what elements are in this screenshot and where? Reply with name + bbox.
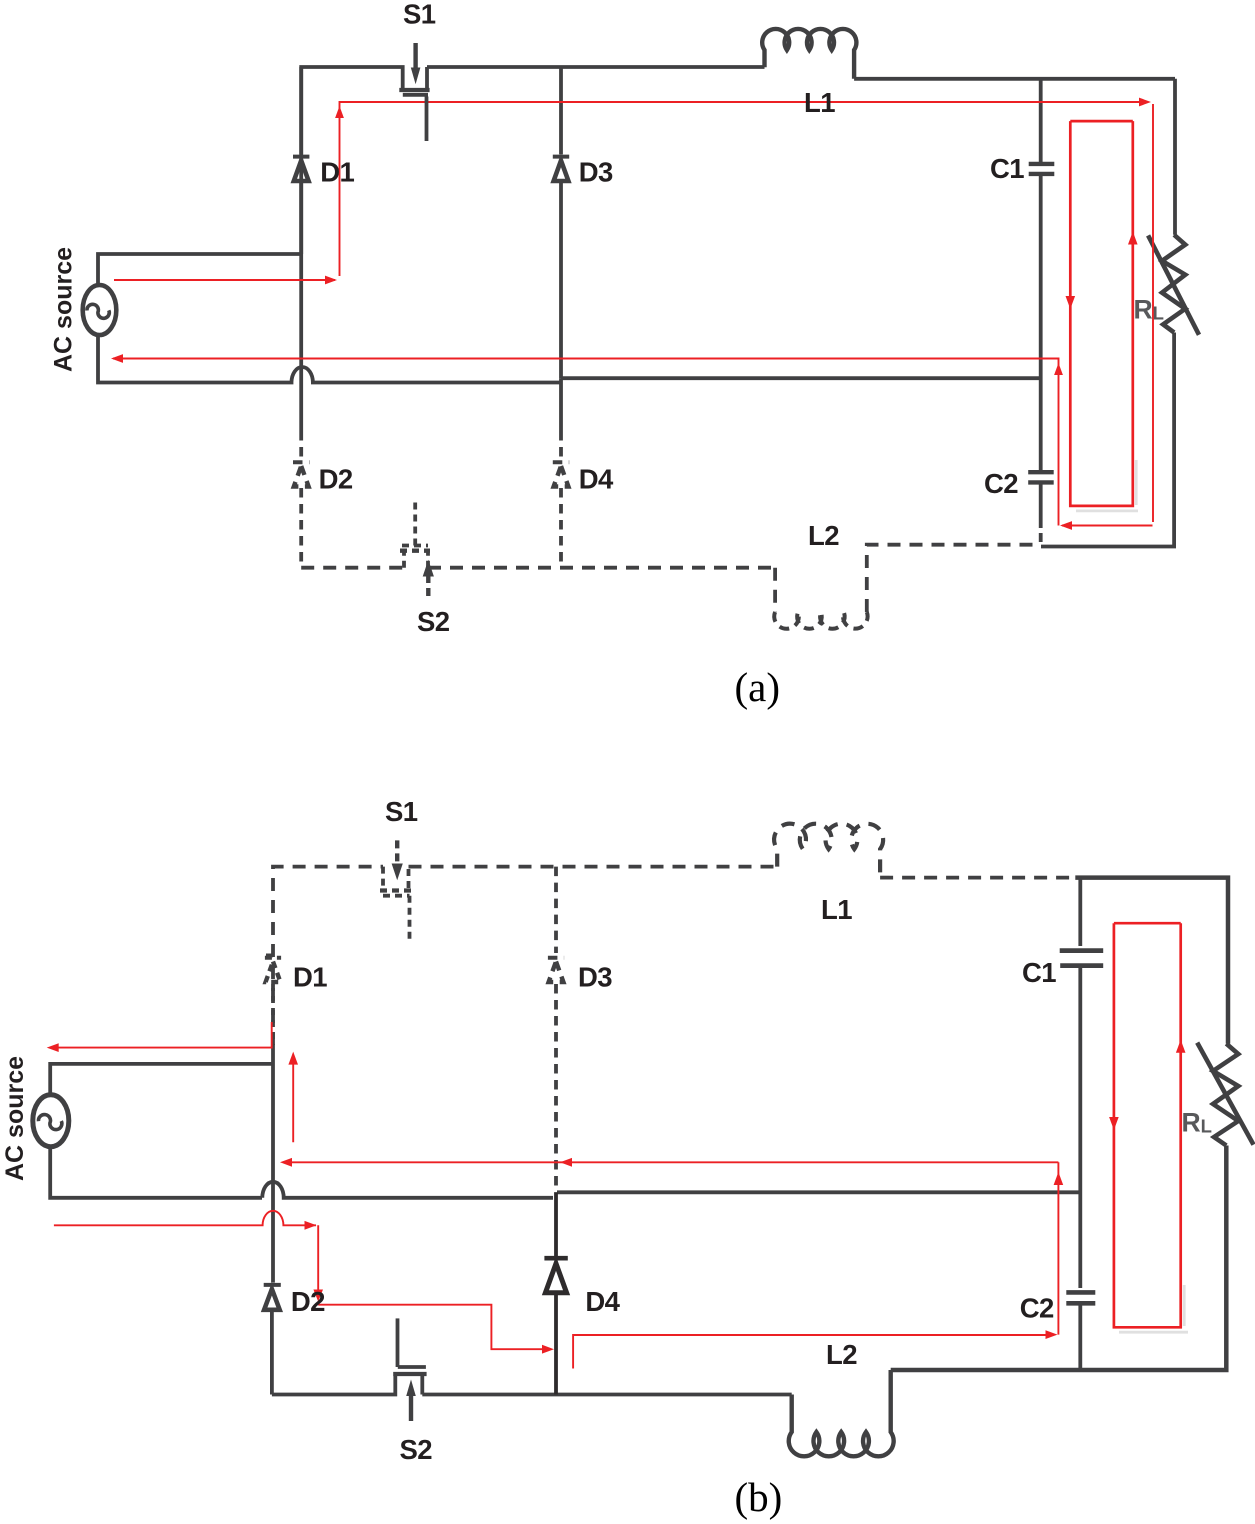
wire: capacitor branch from top bus to C1 [1078, 878, 1082, 946]
wire: dashed below D1 [271, 984, 275, 1045]
svg-text:L2: L2 [826, 1339, 857, 1370]
wire: right side down to load RL [1173, 79, 1177, 235]
AC source sine glyph [38, 1115, 61, 1130]
svg-text:L1: L1 [804, 87, 835, 118]
wire red: up from C2 to mid return line [1057, 1162, 1059, 1334]
S2 (a) pointer arrow shaft [423, 560, 434, 596]
transistor S1 gate lead (over red) [425, 97, 429, 142]
S2 (b) pointer arrow shaft [406, 1380, 416, 1422]
diode D4 branch (dashed, not conducting) [553, 431, 569, 568]
bottom dashed bus with S2 and L2 (inactive path) [301, 545, 1040, 629]
diode D1 bar left nub [263, 954, 273, 958]
capacitor C1 top plate [1029, 162, 1055, 166]
diode D4 triangle [554, 466, 569, 487]
wire: dashed D1 branch top and bus to S1 [273, 867, 383, 1045]
transistor S1 channel bar [399, 88, 429, 92]
wire: AC source bottom lead [50, 1148, 262, 1198]
capacitor C2 bottom plate [1066, 1301, 1095, 1306]
arrowhead up on inner loop right [1128, 232, 1138, 245]
wire red: from D4 along L2 line to C2 [573, 1335, 1054, 1369]
svg-text:D4: D4 [585, 1286, 620, 1317]
wire: D3 branch below diode to mid bus [559, 183, 563, 378]
arrowhead left into source [111, 354, 123, 363]
wire: L1 to top-right corner [854, 77, 1175, 81]
svg-text:(b): (b) [735, 1474, 783, 1520]
switch S1 (dashed, off) [380, 867, 411, 943]
wire: dashed above D2 [299, 431, 303, 458]
S2 (a) pointer arrowhead [423, 560, 434, 577]
capacitor C2 top plate [1066, 1290, 1095, 1295]
diode D3 triangle [549, 962, 564, 983]
svg-text:D3: D3 [579, 156, 613, 187]
transistor S1 channel bar [380, 888, 411, 892]
capacitor C2 top plate [1028, 470, 1054, 474]
diode D4 cathode bar [544, 1256, 567, 1261]
svg-text:AC source: AC source [50, 247, 78, 372]
wire: D3 branch above diode [559, 67, 563, 154]
wire: below D2 to bottom bus corner [270, 1312, 274, 1395]
svg-text:D1: D1 [320, 156, 354, 187]
arrowhead up to mid bus [1054, 363, 1063, 375]
wire: solid top-right bus and right side down to RL [1075, 878, 1228, 1044]
arrowhead left on mid return line at D3 branch [560, 1158, 572, 1167]
arrowhead left on mid return line at D1 branch [280, 1158, 292, 1167]
diode D3 cathode bar [548, 956, 564, 960]
figure (b) red current path [52, 923, 1181, 1368]
arrowhead down on inner loop left [1066, 296, 1076, 309]
transistor S2 channel bar [393, 1372, 426, 1376]
diode D2 cathode bar [293, 460, 309, 464]
transistor S2 gate bar [398, 1365, 426, 1369]
wire red: D1 node stub left to AC source [52, 1022, 272, 1048]
wire: bottom bus S2 past D4 to L2 [422, 1393, 791, 1397]
transistor S2 channel bar [400, 549, 430, 553]
capacitor C2 bottom plate [1028, 480, 1054, 484]
arrowhead up beside D1 branch [288, 1052, 298, 1065]
wire red: up to mid level and return to source [113, 359, 1059, 526]
diode D2 triangle [294, 466, 309, 487]
wire: mid bus right segment to capacitor branch [557, 1190, 1080, 1194]
transistor S2 gate lead [413, 499, 417, 546]
resistor RL zigzag (variable load) [1162, 235, 1185, 333]
diode D3 triangle [554, 161, 569, 182]
arrowhead right on source bottom lead [305, 1221, 317, 1230]
S2 (b) pointer arrowhead [406, 1380, 416, 1397]
wire: mid bus right segment to capacitor branch [561, 376, 1041, 380]
capacitor C1 top plate [1060, 948, 1104, 953]
wire red: inner C1-C2-load loop [1070, 121, 1133, 506]
svg-text:D2: D2 [319, 464, 353, 495]
arrowhead right at D1 node [325, 276, 337, 285]
inductor L2 (dashed) [774, 612, 867, 629]
capacitor C1 bottom plate [1060, 963, 1103, 968]
wire: D4 branch below diode to bottom bus [554, 1295, 558, 1395]
wire: dashed bottom bus D2 to S2 [301, 566, 404, 570]
svg-text:C1: C1 [1022, 957, 1056, 988]
arrowhead up toward mid return line [1054, 1172, 1064, 1185]
wire red: inner C1-C2-load loop [1114, 923, 1181, 1327]
svg-text:L1: L1 [821, 894, 852, 925]
wire: D1 branch below diode through bump to D2 [299, 183, 303, 431]
svg-text:AC source: AC source [1, 1056, 29, 1181]
diode D2 branch (dashed, not conducting) [293, 431, 309, 568]
arrowhead down on inner loop left [1109, 1117, 1119, 1130]
transistor S1 right lead [407, 867, 411, 888]
svg-text:C2: C2 [984, 468, 1018, 499]
AC source sine glyph [87, 304, 109, 318]
diode D4 triangle [545, 1264, 566, 1293]
diode D1 triangle [266, 962, 281, 983]
wire: C2 tail down [1039, 484, 1043, 528]
wire: C2 tail dashed end to bottom corner [1039, 533, 1043, 547]
wire: D4 branch above diode [554, 1192, 558, 1256]
wire: dashed bottom bus S2 past D4 to L2 [428, 566, 775, 570]
svg-text:(a): (a) [735, 664, 781, 710]
wire: below RL to bottom-right corner [1041, 333, 1174, 547]
svg-text:D4: D4 [579, 464, 614, 495]
transistor S2 gate lead [396, 1318, 400, 1367]
transistor S2 right lead [426, 551, 430, 568]
diode D2 cathode bar [264, 1283, 281, 1287]
wire red: mid return line toward source [284, 1161, 1058, 1163]
arrowhead right at top bus end [1139, 98, 1151, 107]
arrowhead right into D4 node [542, 1345, 554, 1354]
transistor S1 gate bar [383, 894, 410, 898]
wire red: upward annotation arrow next to D1 branch [292, 1056, 294, 1142]
inductor L1 [762, 29, 856, 79]
AC source circle [33, 1095, 69, 1147]
arrowhead left into source top [47, 1043, 59, 1052]
svg-text:S2: S2 [400, 1434, 433, 1465]
resistor RL zigzag (variable load) [1213, 1044, 1238, 1146]
wire: dashed below D3 to mid bus [554, 984, 558, 1192]
wire red: source bottom lead with bump, down to D2 [54, 1211, 318, 1298]
svg-text:S1: S1 [385, 796, 418, 827]
transistor S2 left lead [402, 551, 406, 568]
wire: dashed below D4 to bottom bus [559, 488, 563, 568]
wire red: from D2 right and down into D4 node [318, 1305, 550, 1350]
transistor S1 gate bar [403, 93, 428, 97]
wire: D4 branch solid stub below mid bus [559, 378, 563, 431]
wire: dashed bus S1 past D3 to L1 [409, 865, 778, 869]
wire: D1 branch above diode [299, 67, 303, 154]
transistor S1 gate lead [408, 896, 412, 943]
inductor L2 [789, 1370, 894, 1456]
diode D1 cathode bar [293, 155, 309, 159]
wire: dashed above D4 [559, 431, 563, 458]
wire: L2 up and right to C2 tail [867, 545, 1040, 612]
wire: AC source bottom lead with jump-over bump at D1/D2 branch [98, 335, 561, 383]
wire: C2 to bottom bus [1078, 1306, 1082, 1371]
svg-text:D3: D3 [578, 961, 612, 992]
wire: bottom lead jump-over bump at D1/D2 branch [262, 1182, 553, 1198]
wire: C1 to mid-bus junction to C2 [1078, 968, 1082, 1288]
diode D1 cathode bar [265, 956, 281, 960]
transistor S1 source lead up to top bus [425, 67, 429, 88]
svg-text:D1: D1 [293, 961, 327, 992]
capacitor C1 bottom plate [1029, 172, 1055, 176]
svg-text:C2: C2 [1020, 1293, 1054, 1324]
arrowhead down into D2 [313, 1290, 323, 1302]
svg-text:S2: S2 [417, 606, 450, 637]
shadow under red loop (b) [1119, 1285, 1188, 1332]
wire top bus left: D1 cathode node to S1 drain [301, 67, 403, 254]
wire: dashed above D3 [554, 867, 558, 953]
arrowhead up through D1 [335, 106, 344, 118]
arrowhead left on bottom segment [1060, 521, 1072, 530]
diode D4 cathode bar [553, 460, 569, 464]
diode D1 (dashed, not conducting) [263, 955, 281, 1045]
S1 (b) pointer arrowhead [392, 864, 403, 881]
wire: dashed L1 to top-right solid wire [880, 876, 1075, 880]
wire: C1 to mid-bus junction to C2 [1039, 176, 1043, 470]
svg-text:S1: S1 [403, 0, 436, 30]
transistor S1 left lead [381, 867, 385, 888]
resistor RL variable-arrow diagonal [1148, 235, 1199, 334]
wire: dashed below D2 to bottom bus [299, 488, 303, 568]
svg-text:D2: D2 [291, 1286, 325, 1317]
wire: capacitor branch from top bus down to C1 [1039, 79, 1043, 162]
AC source circle [83, 285, 117, 335]
shadow under red loop (a) [1076, 460, 1138, 511]
wire: right side below RL to bottom bus [891, 1146, 1227, 1371]
arrowhead up on inner loop right [1176, 1040, 1186, 1053]
svg-text:L2: L2 [808, 520, 839, 551]
switch S2 (dashed, off) [400, 499, 430, 568]
diode D1 triangle [294, 161, 309, 182]
wire: jog down into L2 [773, 568, 777, 612]
wire red: AC source to D1 node [114, 279, 335, 281]
top dashed bus (inactive path) [273, 824, 1075, 1045]
diode D2 triangle [264, 1289, 280, 1310]
wire: D1/D2 vertical solid part [271, 1045, 275, 1283]
transistor S2 gate bar [402, 544, 428, 548]
svg-text:C1: C1 [990, 153, 1024, 184]
wire red: down right side and along bottom [1062, 104, 1153, 526]
S1 (a) pointer arrowhead [411, 68, 421, 85]
S1 (a) pointer arrow shaft [411, 43, 427, 141]
resistor RL variable-arrow diagonal [1197, 1043, 1253, 1145]
inductor L1 (dashed) [774, 824, 883, 878]
figure (a) red current path [113, 102, 1153, 526]
S1 (b) pointer arrow shaft [392, 840, 403, 880]
wire red: up through D1 and across top bus [340, 102, 1149, 276]
wire: S1 to L1 left terminal [427, 65, 765, 69]
diode D3 cathode bar [553, 155, 569, 159]
diode D3 branch (dashed, not conducting) [548, 867, 564, 1193]
wire: AC source top lead [98, 254, 301, 285]
transistor S2 right lead [420, 1376, 424, 1395]
wire: bottom bus to S2 left lead [272, 1376, 395, 1395]
wire: AC source top lead [50, 1064, 273, 1094]
arrowhead right into C2 branch [1046, 1330, 1058, 1339]
